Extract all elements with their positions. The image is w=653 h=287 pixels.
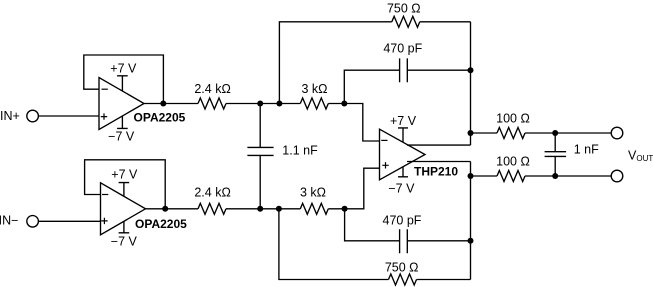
resistor R4 3 kOhm (bottom) — [300, 203, 328, 214]
resistor R3 3 kOhm (top) — [300, 98, 328, 109]
wire 750 top branch right — [420, 21, 471, 23]
svg-text:100 Ω: 100 Ω — [496, 112, 530, 126]
wire output+ to R7 — [471, 132, 498, 134]
junction node bottom of C5 — [552, 173, 558, 179]
fully-differential amp U3 THP210 triangle — [380, 129, 426, 180]
svg-text:−7 V: −7 V — [388, 181, 415, 195]
U1 -7 V supply pin — [117, 116, 128, 128]
wire U2 feedback loop output to inverting input — [85, 160, 166, 209]
U2 non-inverting pin label + — [101, 218, 107, 224]
wire U1 output — [144, 103, 198, 105]
wire IN- to U2 non-inverting input — [38, 220, 100, 222]
wire IN+ to U1 non-inverting input — [38, 115, 99, 117]
junction node bottom 470 pF branch — [342, 206, 348, 212]
U3 +7 V supply pin — [398, 128, 408, 142]
op-amp U1 OPA2205 triangle — [99, 78, 144, 130]
svg-text:470 pF: 470 pF — [383, 42, 422, 56]
junction node top of C1 — [257, 101, 263, 107]
svg-text:2.4 kΩ: 2.4 kΩ — [194, 186, 230, 200]
U3 inverting pin label - — [381, 139, 387, 141]
capacitor C3 470 pF (top) — [400, 58, 408, 82]
U3 -7 V supply pin — [398, 167, 408, 177]
wire R7 to VOUT+ terminal — [525, 132, 611, 134]
svg-text:IN−: IN− — [0, 213, 18, 227]
U1 +7 V supply pin — [117, 76, 128, 91]
U2 -7 V supply pin — [119, 221, 130, 233]
wire R4 to U3 non-inverting input — [328, 168, 379, 209]
wire R3 to U3 inverting input — [328, 104, 379, 142]
U2 inverting pin label - — [102, 194, 108, 196]
svg-text:−7 V: −7 V — [108, 129, 135, 143]
wire 750 bottom branch left — [279, 209, 389, 280]
input terminal IN+ — [27, 110, 39, 122]
svg-text:3 kΩ: 3 kΩ — [300, 186, 326, 200]
U1 inverting pin label - — [102, 88, 108, 90]
output terminal VOUT- — [611, 170, 623, 182]
wire U3 output+ (top) — [407, 144, 471, 146]
U1 non-inverting pin label + — [101, 113, 107, 119]
wire feedback column right bottom — [470, 162, 472, 280]
wire R1 to R3 — [226, 103, 300, 105]
junction node bottom of C1 — [257, 206, 263, 212]
wire U1 feedback loop output to inverting input — [84, 55, 164, 104]
wire U2 output — [146, 208, 199, 210]
U2 +7 V supply pin — [119, 183, 130, 197]
output terminal VOUT+ — [611, 127, 623, 139]
svg-text:2.4 kΩ: 2.4 kΩ — [194, 82, 230, 96]
svg-text:+7 V: +7 V — [111, 167, 138, 181]
capacitor C5 1 nF — [545, 133, 567, 176]
op-amp U2 OPA2205 triangle — [101, 183, 146, 235]
svg-text:OPA2205: OPA2205 — [134, 111, 186, 125]
junction node top 470 pF branch — [341, 101, 347, 107]
svg-text:+7 V: +7 V — [390, 114, 417, 128]
svg-text:100 Ω: 100 Ω — [496, 155, 530, 169]
svg-text:−7 V: −7 V — [111, 234, 138, 248]
junction U2 output node — [162, 206, 168, 212]
svg-text:OPA2205: OPA2205 — [135, 217, 187, 231]
svg-text:+7 V: +7 V — [110, 61, 137, 75]
resistor R1 2.4 kOhm (top) — [198, 98, 226, 109]
wire 470 pF top branch left — [344, 70, 399, 103]
wire 750 bottom branch right — [417, 279, 471, 281]
wire U3 output- (bottom) — [407, 161, 471, 163]
wire output- to R8 — [471, 175, 498, 177]
U3 non-inverting pin label + — [382, 162, 388, 168]
junction node bottom 750 branch — [276, 206, 282, 212]
svg-text:1 nF: 1 nF — [574, 143, 599, 157]
svg-text:THP210: THP210 — [414, 164, 458, 178]
svg-text:470 pF: 470 pF — [383, 214, 422, 228]
wire R2 to R4 — [226, 208, 300, 210]
wire feedback column right top — [470, 22, 472, 145]
capacitor C4 470 pF (bottom) — [400, 229, 408, 253]
junction node top 750 branch — [276, 101, 282, 107]
junction node C3 right — [468, 67, 474, 73]
junction node top of C5 — [552, 130, 558, 136]
resistor R8 100 Ohm (bottom) — [497, 171, 525, 182]
junction node output- tee — [468, 173, 474, 179]
wire 470 pF top branch right — [407, 69, 470, 71]
svg-text:1.1 nF: 1.1 nF — [282, 144, 318, 158]
resistor R6 750 Ohm (bottom) — [389, 274, 417, 285]
capacitor C1 1.1 nF — [247, 104, 273, 209]
junction node output+ tee — [468, 130, 474, 136]
resistor R2 2.4 kOhm (bottom) — [198, 203, 226, 214]
wire 470 pF bottom branch right — [407, 240, 470, 242]
wire 750 top branch left — [279, 22, 391, 104]
wire 470 pF bottom branch left — [345, 209, 400, 241]
wire R8 to VOUT- terminal — [525, 175, 611, 177]
resistor R7 100 Ohm (top) — [497, 128, 525, 139]
svg-text:750 Ω: 750 Ω — [385, 260, 419, 274]
junction U1 output node — [160, 101, 166, 107]
junction node C4 right — [468, 238, 474, 244]
svg-text:3 kΩ: 3 kΩ — [301, 82, 327, 96]
input terminal IN- — [27, 216, 39, 228]
resistor R5 750 Ohm (top) — [392, 16, 420, 27]
svg-text:750 Ω: 750 Ω — [387, 1, 421, 15]
svg-text:IN+: IN+ — [0, 109, 20, 123]
